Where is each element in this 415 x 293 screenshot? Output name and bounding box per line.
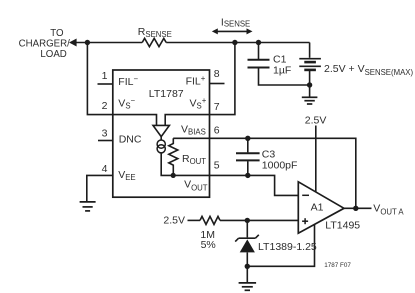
svg-text:LT1787: LT1787 — [149, 88, 184, 100]
svg-text:TO: TO — [50, 28, 64, 39]
svg-text:FIL+: FIL+ — [186, 74, 206, 88]
svg-text:1µF: 1µF — [273, 65, 291, 77]
svg-text:3: 3 — [102, 128, 108, 140]
svg-text:VEE: VEE — [118, 169, 135, 182]
svg-text:FIL−: FIL− — [118, 75, 138, 89]
svg-text:7: 7 — [214, 101, 220, 113]
svg-text:DNC: DNC — [119, 133, 142, 145]
svg-text:RSENSE: RSENSE — [138, 26, 172, 39]
svg-text:VS+: VS+ — [190, 96, 207, 111]
svg-text:6: 6 — [214, 125, 220, 137]
svg-text:LT1495: LT1495 — [325, 220, 360, 232]
svg-text:2: 2 — [102, 100, 108, 112]
svg-text:2.5V: 2.5V — [305, 114, 327, 126]
svg-text:VOUT: VOUT — [184, 179, 208, 193]
svg-text:5%: 5% — [201, 239, 216, 251]
svg-text:5: 5 — [214, 159, 220, 171]
svg-text:1: 1 — [102, 70, 108, 82]
svg-text:VOUT A: VOUT A — [373, 203, 404, 217]
svg-text:LT1389-1.25: LT1389-1.25 — [258, 241, 317, 253]
svg-text:A1: A1 — [311, 202, 324, 214]
svg-text:VS−: VS− — [118, 96, 135, 111]
svg-text:ISENSE: ISENSE — [221, 17, 250, 29]
svg-text:CHARGER/: CHARGER/ — [19, 39, 70, 50]
svg-text:VBIAS: VBIAS — [181, 123, 206, 136]
svg-text:8: 8 — [214, 68, 220, 80]
svg-text:ROUT: ROUT — [182, 153, 206, 166]
svg-text:1000pF: 1000pF — [262, 160, 298, 172]
svg-text:2.5V + VSENSE(MAX): 2.5V + VSENSE(MAX) — [324, 63, 414, 77]
svg-text:4: 4 — [102, 163, 108, 175]
svg-text:1787 F07: 1787 F07 — [324, 262, 351, 269]
svg-text:2.5V: 2.5V — [163, 215, 185, 227]
svg-text:LOAD: LOAD — [40, 49, 66, 60]
